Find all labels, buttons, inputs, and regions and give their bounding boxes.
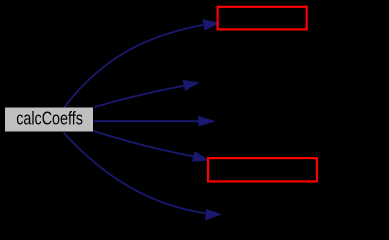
arrowhead edge2 [183, 80, 199, 90]
node calcCoeffs (gray box) [5, 108, 93, 132]
edge calcCoeffs->node2 (straight up-right) [94, 86, 184, 108]
arrowhead edge5 [206, 210, 221, 220]
edge calcCoeffs->node4 (to lower red box) [94, 131, 194, 157]
svg-text:calcCoeffs: calcCoeffs [16, 108, 83, 129]
edge calcCoeffs->node3 (horizontal) [94, 120, 200, 122]
arrowhead edge1 [203, 20, 220, 30]
arrowhead edge3 [199, 116, 215, 126]
node1 (red box top) [218, 7, 307, 30]
edge calcCoeffs->node5 (curve down) [64, 133, 207, 214]
arrowhead edge4 [193, 152, 209, 162]
edge calcCoeffs->node1 (curve up to top red box) [64, 25, 203, 108]
node4 (red box lower) [208, 158, 317, 181]
